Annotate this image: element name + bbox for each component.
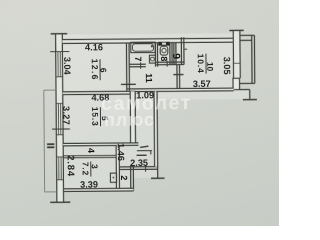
corridor11/kitchen wall: [176, 65, 178, 89]
neighbour wall top edge: [240, 34, 254, 36]
room label 10/10.4: [196, 54, 216, 74]
pillar bottom step wall: [240, 89, 250, 91]
wall 2.35 horizontal: [119, 166, 157, 168]
room label 6/12.6: [90, 59, 109, 81]
section mark II: [47, 144, 54, 147]
left exterior wall fill: [55, 34, 64, 202]
toilet cistern: [158, 42, 169, 46]
door tick room6: [121, 83, 136, 85]
svg-text:7.2: 7.2: [81, 162, 91, 176]
pier cap above window6: [56, 51, 63, 53]
left exterior wall inner line: [62, 34, 63, 201]
svg-text:12.6: 12.6: [90, 59, 100, 81]
neighbour wall right double line: [251, 35, 253, 83]
window room 6: [58, 52, 60, 77]
svg-text:3.05: 3.05: [222, 57, 232, 75]
room5 right wall: [130, 91, 135, 145]
wall cut tick bottom-right: [151, 177, 164, 179]
balcony outline: [44, 90, 57, 192]
neighbour wall bottom edge: [239, 82, 254, 84]
pillar right line: [239, 31, 241, 78]
left exterior wall outer line: [56, 34, 57, 201]
bath bottom wall: [129, 63, 146, 65]
svg-text:3.57: 3.57: [193, 79, 211, 89]
svg-text:3.39: 3.39: [80, 180, 98, 190]
svg-text:3.27: 3.27: [61, 106, 71, 125]
bathtub: [131, 42, 155, 53]
svg-text:4.16: 4.16: [85, 42, 103, 52]
bath/wc wall: [154, 43, 156, 67]
svg-text:2.35: 2.35: [130, 158, 148, 168]
svg-text:2.84: 2.84: [65, 155, 76, 177]
pillar top cut tick: [229, 29, 243, 31]
room5 top wall: [63, 91, 136, 94]
pillar left line: [232, 31, 234, 78]
dimension tick on left wall y51: [50, 51, 69, 53]
closet right wall: [130, 165, 132, 191]
dimension tick on left wall y128: [52, 128, 70, 130]
top wall inner line: [62, 42, 233, 43]
toilet bowl: [160, 46, 168, 55]
window room 3: [59, 157, 61, 180]
svg-text:3.04: 3.04: [62, 57, 72, 76]
wall cut tick right: [243, 99, 257, 101]
room label 5/15.3: [90, 107, 110, 127]
entrance door marks: [136, 146, 152, 155]
kitchen bottom / corridor bottom wall: [127, 88, 234, 91]
vent box room3: [110, 173, 116, 182]
top wall outer line: [62, 38, 233, 39]
pillar mid tick: [234, 62, 241, 64]
hall right wall / apartment right boundary: [154, 91, 158, 166]
apartment interior tint: [56, 33, 250, 191]
svg-text:2: 2: [119, 175, 129, 180]
svg-text:плюс: плюс: [104, 109, 155, 129]
wc right wall: [169, 43, 171, 65]
top-left wall cut tick: [51, 33, 67, 35]
top-right pillar fill: [233, 31, 240, 79]
svg-text:15.3: 15.3: [90, 107, 100, 127]
wc and room9 bottom wall: [156, 61, 184, 63]
svg-text:1.46: 1.46: [116, 143, 126, 161]
window room 5: [58, 104, 61, 135]
room9 right wall: [180, 37, 182, 64]
svg-text:4: 4: [86, 148, 96, 153]
dimension tick on 2.35 wall: [145, 165, 147, 172]
kitchen door hinge tick: [184, 48, 187, 50]
right boundary below 2.35 wall: [157, 169, 159, 178]
svg-text:11: 11: [144, 73, 154, 83]
svg-text:8: 8: [159, 56, 169, 61]
corridor4 bottom wall: [63, 154, 116, 156]
svg-text:10.4: 10.4: [196, 54, 206, 74]
bottom wall: [64, 188, 133, 191]
svg-text:9: 9: [170, 53, 181, 59]
bottom-left wall cut tick: [50, 201, 70, 203]
wall room6/corridor11: [125, 43, 127, 91]
hall/closet wall vertical: [116, 145, 119, 191]
pier caps window5: [56, 77, 64, 180]
kitchen door tick: [173, 74, 183, 76]
room label 3/7.2: [81, 161, 100, 176]
svg-text:7: 7: [133, 56, 143, 61]
door tick wc: [166, 61, 168, 67]
top wall fill: [62, 38, 233, 43]
washbasin: [149, 55, 155, 63]
pillar lower box: [233, 78, 239, 89]
room9 left wall: [173, 43, 175, 65]
door tick bath: [140, 62, 142, 68]
room5 bottom wall: [63, 143, 138, 146]
